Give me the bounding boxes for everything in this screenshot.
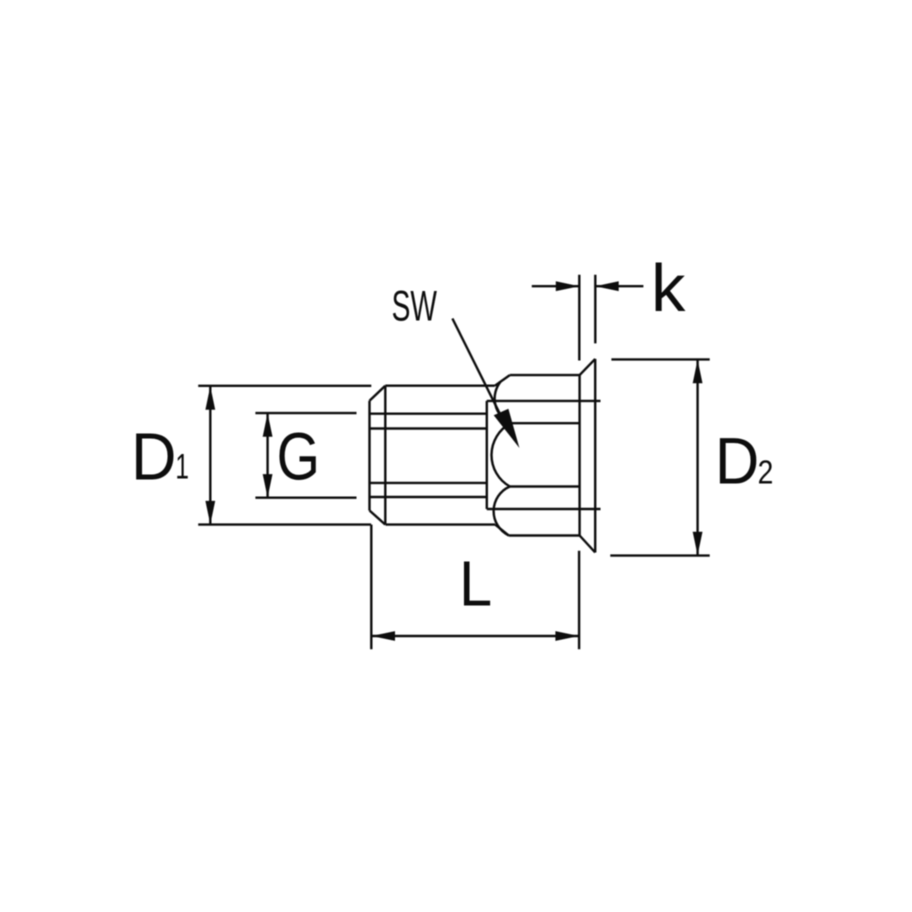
hex flat top edge (487, 400, 601, 402)
svg-text:G: G (277, 420, 320, 495)
D2 top arrowhead (693, 360, 703, 384)
hex top silhouette (510, 374, 580, 376)
G bottom arrowhead (263, 474, 273, 498)
shank bottom chamfer (370, 511, 386, 525)
head top flare (580, 359, 596, 375)
svg-text:k: k (651, 252, 685, 326)
svg-text:1: 1 (175, 448, 189, 486)
svg-text:L: L (459, 549, 492, 621)
D2 top extension line (611, 358, 709, 360)
k right dimension line (595, 285, 643, 287)
G bottom extension line (255, 497, 356, 499)
head bottom flare (580, 536, 596, 553)
svg-text:SW: SW (392, 282, 437, 330)
k left dimension line (532, 285, 580, 287)
shank top chamfer (370, 386, 386, 401)
thread line 1 (370, 413, 487, 415)
D2 bottom arrowhead (693, 532, 703, 556)
svg-text:D: D (715, 423, 759, 498)
thread line 3 (370, 482, 487, 484)
G top arrowhead (263, 413, 273, 437)
L dimension line (372, 635, 579, 637)
k right arrowhead (595, 281, 619, 291)
hex bottom scallop arc (494, 487, 510, 536)
k left arrowhead (556, 281, 580, 291)
hex flat bottom edge (487, 508, 601, 510)
thread line 4 (370, 496, 487, 498)
L left arrowhead (372, 631, 396, 641)
hex flat left edge (486, 401, 488, 509)
head left face (578, 375, 580, 535)
shank bottom edge (386, 523, 496, 525)
D1 dimension line (209, 387, 211, 524)
hex inner line lower (510, 485, 580, 487)
G dimension line (266, 414, 268, 498)
k right extension line (594, 275, 596, 344)
shank chamfer edge vertical (384, 386, 386, 525)
shank left edge (368, 401, 370, 511)
D1 bottom extension line (198, 523, 371, 525)
L right arrowhead (555, 631, 579, 641)
head right face (594, 359, 596, 553)
L left extension line (370, 525, 372, 650)
hex top transition chamfer (495, 375, 510, 386)
shank top edge (385, 385, 495, 387)
hex bottom transition chamfer (495, 525, 509, 536)
D1 bottom arrowhead (205, 501, 215, 525)
G top extension line (255, 412, 356, 414)
D1 top arrowhead (205, 386, 215, 410)
D1 top extension line (198, 385, 371, 387)
SW leader line (452, 319, 502, 419)
hex center arc (492, 423, 511, 486)
D2 bottom extension line (610, 554, 709, 556)
D2 dimension line (696, 360, 698, 555)
hex top scallop arc (495, 382, 511, 424)
SW leader arrowhead (494, 409, 520, 448)
hex inner line upper (511, 422, 580, 424)
hex bottom silhouette (509, 534, 580, 536)
svg-text:D: D (131, 419, 176, 494)
svg-text:2: 2 (758, 453, 774, 491)
thread line 2 (370, 427, 487, 429)
L right extension line (578, 551, 580, 649)
k left extension line (578, 275, 580, 361)
